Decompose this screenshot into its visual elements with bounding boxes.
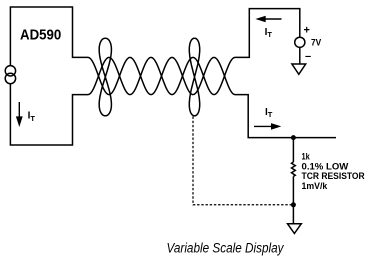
svg-text:1mV/k: 1mV/k <box>302 181 328 192</box>
wire: bottom right from twisted pair <box>235 95 336 138</box>
wire: top right loop to supply <box>235 9 300 58</box>
svg-text:Variable Scale Display: Variable Scale Display <box>167 241 285 256</box>
resistor R1 1k <box>292 162 296 176</box>
wire: twisted pair sinusoid B <box>88 57 235 94</box>
arrow IT left (top) <box>255 16 281 23</box>
svg-text:AD590: AD590 <box>20 27 61 43</box>
twist loop 1 <box>99 38 111 116</box>
current source symbol circle 1 <box>5 66 15 76</box>
svg-text:–: – <box>305 51 311 63</box>
node: junction dot at resistor top <box>291 135 296 140</box>
node: junction dot at resistor bottom / shield <box>291 202 296 207</box>
wire: shield dashed connection <box>193 117 291 205</box>
arrow IT right (bottom) <box>254 123 281 130</box>
svg-text:7V: 7V <box>311 37 322 48</box>
voltage source V1 7V <box>295 37 305 47</box>
sensor U1 AD590 box lower outline <box>10 84 88 145</box>
ground (supply) <box>292 64 306 74</box>
arrow IT down inside box <box>16 102 23 127</box>
ground (resistor) <box>288 224 302 234</box>
svg-text:+: + <box>304 25 310 37</box>
sensor U1 AD590 box upper outline <box>10 7 88 66</box>
current source symbol circle 2 <box>5 73 15 83</box>
wire: source to ground <box>299 47 301 64</box>
twist loop 2 <box>189 38 199 116</box>
wire: twisted pair sinusoid A <box>88 57 235 94</box>
wire: resistor top lead <box>292 138 294 162</box>
wire: resistor bottom lead <box>292 176 294 223</box>
